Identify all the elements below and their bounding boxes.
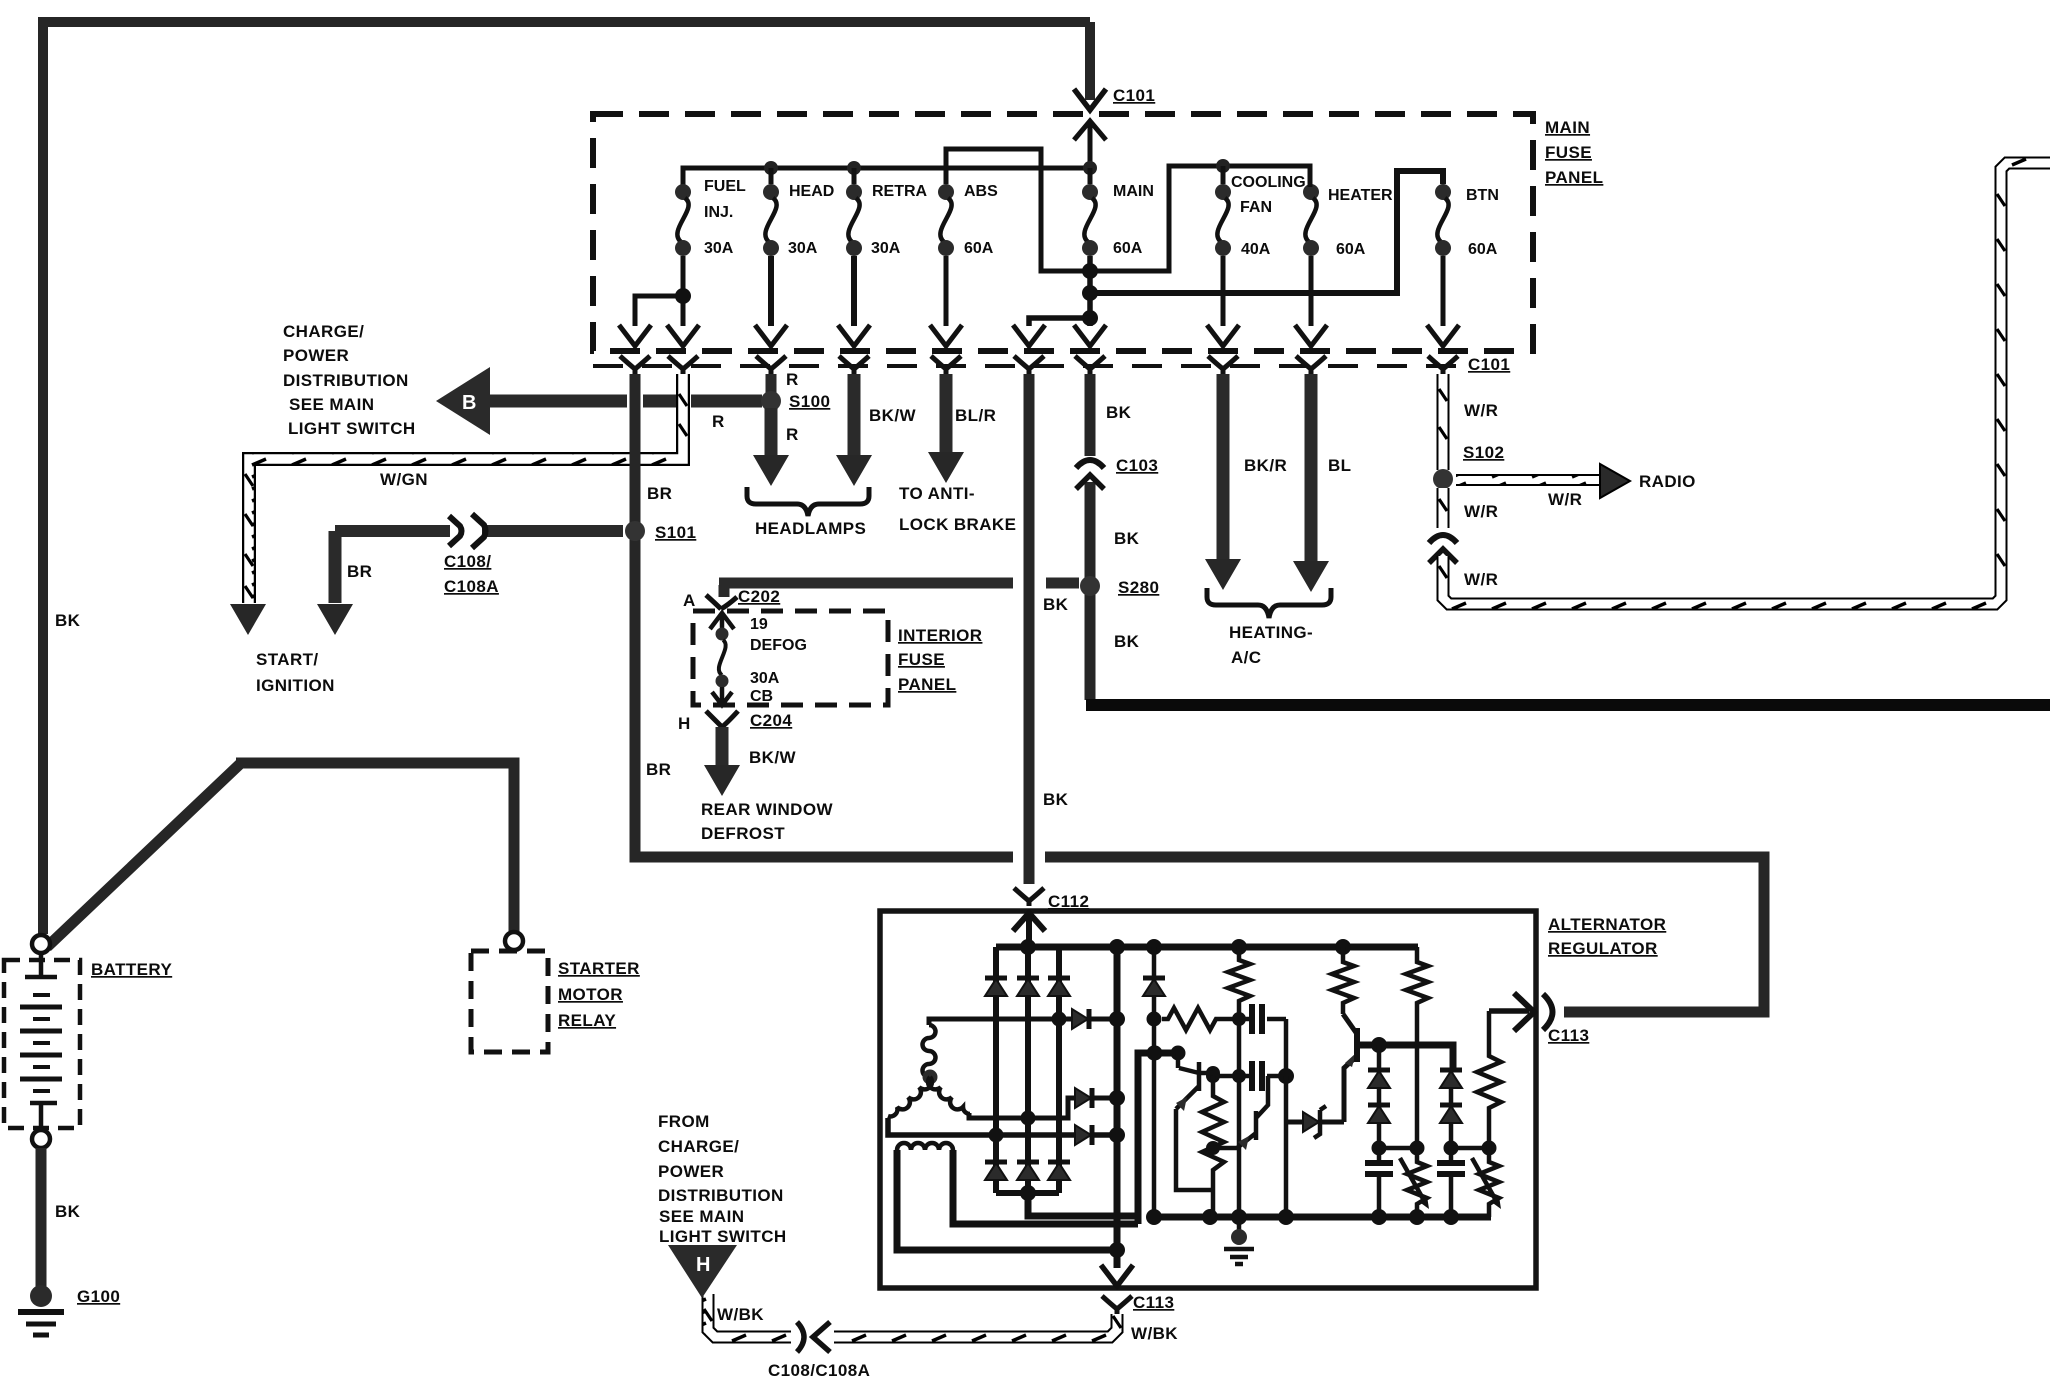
svg-text:CB: CB <box>750 688 773 705</box>
svg-text:30A: 30A <box>704 240 734 257</box>
node trio 3 out <box>1109 1127 1125 1143</box>
wire ABS feed loop from MAIN output <box>946 149 1090 271</box>
wire BL/R anti-lock feed with arrow <box>940 374 953 453</box>
ground (regulator) <box>1231 1229 1247 1245</box>
wire W/R below S102 (outlined) <box>1437 488 1450 528</box>
arrow to start/ignition <box>230 604 266 635</box>
node cluster B <box>1444 1141 1459 1156</box>
wire HEAD fuse stub <box>769 168 774 184</box>
connector C202 <box>706 595 737 609</box>
svg-text:ABS: ABS <box>964 183 998 200</box>
wire 1286 column down to bus <box>1284 1076 1289 1217</box>
connector C inline on W/R <box>1429 535 1457 543</box>
svg-text:COOLING: COOLING <box>1231 174 1306 191</box>
diode trio 3 <box>1075 1125 1092 1145</box>
node thermistor B <box>1482 1141 1497 1156</box>
node thermistor A <box>1410 1141 1425 1156</box>
connector C101 boundary dashed line <box>593 364 1458 368</box>
wire C113 right output <box>1489 1008 1529 1014</box>
ground G100 <box>30 1285 52 1307</box>
capacitor C1 <box>1239 1017 1286 1022</box>
wire RETRA output <box>851 256 857 326</box>
brace heating A/C <box>1207 588 1331 618</box>
svg-text:LIGHT SWITCH: LIGHT SWITCH <box>659 1227 787 1246</box>
wire BK from MAIN pin down to bus bar <box>1085 374 1096 700</box>
fuse HEATER 60A <box>1303 184 1319 256</box>
svg-text:R: R <box>786 370 799 389</box>
wire BL heating feed with arrow <box>1305 374 1318 562</box>
svg-text:CHARGE/: CHARGE/ <box>658 1137 739 1156</box>
node phase A / bridge <box>1052 1012 1067 1027</box>
node phase B / bridge <box>1021 1111 1036 1126</box>
wire BR branch down with arrow <box>329 531 342 603</box>
wire MAIN fuse output column <box>1087 256 1093 326</box>
node column A / R1 <box>1147 1012 1162 1027</box>
connector C113 bottom (arrow into edge) <box>1101 1265 1133 1286</box>
wire phase B <box>969 1098 1117 1118</box>
diode column A <box>1143 978 1165 996</box>
diode trio 2 <box>1075 1088 1092 1108</box>
node bus junction MAIN/C101 <box>1083 161 1097 175</box>
resistor R1 (horizontal) <box>1162 1008 1239 1030</box>
node driver rail / cluster A <box>1371 1037 1387 1053</box>
fuse RETRA 30A <box>846 184 862 256</box>
connector C101 mating halves below panel <box>620 356 650 374</box>
svg-text:C108/C108A: C108/C108A <box>768 1361 870 1376</box>
svg-text:REAR WINDOW: REAR WINDOW <box>701 800 833 819</box>
interior fuse panel dashed box <box>693 611 888 705</box>
svg-text:RADIO: RADIO <box>1639 472 1696 491</box>
svg-text:60A: 60A <box>1113 240 1143 257</box>
svg-text:BL/R: BL/R <box>955 406 996 425</box>
connector C108/C108A inline (bottom) <box>797 1322 804 1352</box>
node rail left <box>1206 1069 1220 1083</box>
arrow radio <box>1600 464 1630 498</box>
cluster A diode pair <box>1377 1045 1382 1148</box>
svg-text:DISTRIBUTION: DISTRIBUTION <box>283 371 409 390</box>
wire BK/W rear defrost with arrow <box>716 727 729 768</box>
connector C113 bottom mating half <box>1102 1296 1132 1314</box>
connector C103 <box>1076 460 1104 468</box>
regulator bottom bus <box>1154 1214 1491 1221</box>
wire alternator output vertical to C113 <box>1114 947 1121 1268</box>
node Q1 collector / R4 <box>1206 1066 1220 1080</box>
wire phase C <box>888 1118 1117 1135</box>
node rail right <box>1278 1068 1294 1084</box>
node bridge bottom <box>1020 1185 1036 1201</box>
svg-text:RETRA: RETRA <box>872 183 928 200</box>
svg-text:C103: C103 <box>1116 456 1158 475</box>
svg-text:STARTER: STARTER <box>558 959 640 978</box>
svg-text:60A: 60A <box>1336 241 1366 258</box>
wire COOLING output <box>1221 256 1226 326</box>
svg-text:POWER: POWER <box>283 346 349 365</box>
node bus junction HEAD <box>764 161 778 175</box>
svg-text:HEADLAMPS: HEADLAMPS <box>755 519 866 538</box>
connector C112 mating half <box>1014 888 1044 906</box>
splice S100 <box>761 391 781 411</box>
resistor R tall to C113 <box>1477 1011 1501 1148</box>
svg-text:R: R <box>712 412 725 431</box>
fuse ABS 60A <box>938 184 954 256</box>
svg-text:BK: BK <box>1043 595 1069 614</box>
svg-text:R: R <box>786 425 799 444</box>
rectifier bridge verticals <box>996 947 1059 1193</box>
node bus/column A <box>1146 939 1162 955</box>
stator left winding <box>888 1077 932 1116</box>
svg-text:BR: BR <box>646 760 671 779</box>
svg-text:BK: BK <box>55 1202 81 1221</box>
wire BK/R heating feed with arrow <box>1217 374 1230 560</box>
wire ABS output <box>944 256 949 326</box>
svg-text:BK/W: BK/W <box>869 406 916 425</box>
node bus/output vertical <box>1109 939 1125 955</box>
svg-text:PANEL: PANEL <box>1545 168 1603 187</box>
svg-text:CHARGE/: CHARGE/ <box>283 322 364 341</box>
thermistor B <box>1479 1148 1499 1217</box>
svg-text:DISTRIBUTION: DISTRIBUTION <box>658 1186 784 1205</box>
node R4 / Q2 emitter <box>1206 1141 1220 1155</box>
svg-text:C112: C112 <box>1048 892 1089 911</box>
link A <box>1379 1146 1417 1151</box>
svg-text:19: 19 <box>750 616 768 633</box>
node bus/colA <box>1146 1209 1162 1225</box>
battery negative terminal <box>32 1130 50 1148</box>
wire Q1 collector to 1076 rail <box>1199 1071 1213 1076</box>
alternator regulator box <box>880 911 1536 1288</box>
node bus/R4 <box>1202 1209 1218 1225</box>
svg-text:C101: C101 <box>1468 355 1510 374</box>
svg-text:C108/: C108/ <box>444 552 491 571</box>
wire bridge bottom to regulator <box>1028 1053 1178 1224</box>
arrow B to main light switch <box>436 367 490 435</box>
svg-text:30A: 30A <box>871 240 901 257</box>
node bus/capA <box>1371 1209 1387 1225</box>
resistor R2 <box>1332 947 1354 1014</box>
wire BTN feed loop from MAIN output <box>1090 171 1443 293</box>
wire BR long run to alternator C113 (right side) <box>635 840 1764 1012</box>
svg-text:A: A <box>683 591 696 610</box>
wire BK battery to ground <box>36 1148 47 1287</box>
connector C204 <box>706 711 738 727</box>
svg-text:PANEL: PANEL <box>898 675 956 694</box>
svg-text:60A: 60A <box>964 240 994 257</box>
starter motor relay dashed box <box>471 951 548 1052</box>
diode bridge lower 3 <box>1048 1162 1070 1180</box>
wire FUEL INJ output with branch <box>635 256 683 326</box>
connector C101 top half <box>1074 89 1106 110</box>
wire zener link <box>1286 1120 1344 1125</box>
svg-text:W/R: W/R <box>1548 490 1582 509</box>
node MAIN/BTN junction <box>1082 285 1098 301</box>
wire column B with resistor R5 <box>1228 947 1250 1237</box>
node column A / link <box>1147 1046 1162 1061</box>
wire B+ top bus <box>996 944 1418 951</box>
node bus/thermA <box>1409 1209 1425 1225</box>
node cluster A <box>1372 1141 1387 1156</box>
svg-text:BK: BK <box>1114 529 1140 548</box>
stator right winding <box>928 1077 970 1114</box>
splice S101 <box>625 521 645 541</box>
thermistor A <box>1407 1148 1427 1217</box>
cluster B diode pair <box>1449 1071 1454 1148</box>
svg-text:RELAY: RELAY <box>558 1011 616 1030</box>
svg-text:40A: 40A <box>1241 241 1271 258</box>
wire battery positive feed: left vertical, top horizontal, down to C101 <box>38 22 1090 934</box>
wire column A (sense) <box>1152 947 1157 1217</box>
svg-text:SEE MAIN: SEE MAIN <box>659 1207 744 1226</box>
wire BK long feed from aux pin to C112 <box>1024 374 1035 884</box>
stator node <box>923 1070 938 1085</box>
connector C112 inner half (arrow up) <box>1013 913 1045 947</box>
battery positive terminal <box>32 935 50 953</box>
field winding (rotor) <box>897 1143 953 1150</box>
wire MAIN fuse stub <box>1088 168 1093 184</box>
svg-text:BK: BK <box>55 611 81 630</box>
node trio 2 out <box>1109 1090 1125 1106</box>
wire HEAD output <box>768 256 774 326</box>
fuse DEFOG 30A CB <box>710 613 734 629</box>
node FUEL INJ branch junction <box>675 288 691 304</box>
svg-text:TO ANTI-: TO ANTI- <box>899 484 975 503</box>
svg-text:60A: 60A <box>1468 241 1498 258</box>
node column B / 1076 rail <box>1232 1069 1246 1083</box>
battery dashed box <box>4 960 80 1128</box>
wire battery to starter motor relay <box>47 763 514 947</box>
wire BK/W headlamp feed with arrow <box>848 374 861 457</box>
svg-text:W/BK: W/BK <box>717 1305 764 1324</box>
diode trio 1 <box>1072 1009 1089 1029</box>
node on 1053 link <box>1148 1046 1163 1061</box>
svg-text:POWER: POWER <box>658 1162 724 1181</box>
wire W/R from BTN pin (outlined) <box>1437 374 1450 470</box>
svg-text:S280: S280 <box>1118 578 1159 597</box>
svg-text:FROM: FROM <box>658 1112 710 1131</box>
connector C101 lower half (arrow up inside panel) <box>1074 121 1106 168</box>
wire BTN output <box>1441 256 1446 326</box>
svg-text:C204: C204 <box>750 711 792 730</box>
node R1/column B <box>1232 1012 1246 1026</box>
svg-text:FAN: FAN <box>1240 199 1272 216</box>
zener diode <box>1303 1112 1319 1132</box>
wire HEAD output below connector <box>766 374 777 394</box>
svg-text:START/: START/ <box>256 650 319 669</box>
svg-text:HEATER: HEATER <box>1328 187 1393 204</box>
capacitor B <box>1449 1148 1454 1217</box>
svg-text:S100: S100 <box>789 392 830 411</box>
node COOLING bus junction <box>1216 159 1230 173</box>
resistor R3 column <box>1406 947 1428 1148</box>
svg-text:A/C: A/C <box>1231 648 1261 667</box>
diode bridge upper 2 <box>1017 978 1039 996</box>
diode bridge lower 2 <box>1017 1162 1039 1180</box>
arrow H from charge/power distribution <box>668 1245 737 1298</box>
starter motor relay terminal <box>505 932 523 950</box>
transistor Q2 <box>1213 1076 1268 1148</box>
svg-text:C202: C202 <box>738 587 780 606</box>
svg-text:S101: S101 <box>655 523 696 542</box>
node Q1 collector tap <box>1171 1046 1186 1061</box>
node ground bus <box>1231 1209 1247 1225</box>
diode bridge lower 1 <box>985 1162 1007 1180</box>
stator top winding <box>923 1025 936 1077</box>
svg-text:BL: BL <box>1328 456 1351 475</box>
svg-text:SEE MAIN: SEE MAIN <box>289 395 374 414</box>
svg-text:30A: 30A <box>788 240 818 257</box>
wire BK from C202 to S280 <box>719 583 1079 597</box>
splice S280 <box>1080 576 1100 596</box>
wire BR to C108/C108A (shaft) <box>335 525 623 537</box>
link B <box>1451 1146 1489 1151</box>
svg-text:BR: BR <box>647 484 672 503</box>
battery cells <box>25 953 57 977</box>
wire COOLING fuse stub <box>1221 166 1226 184</box>
diode bridge upper 1 <box>985 978 1007 996</box>
node trio 1 out <box>1109 1011 1125 1027</box>
node field return <box>1109 1242 1125 1258</box>
wire phase A <box>929 1019 1117 1025</box>
svg-text:H: H <box>678 714 691 733</box>
svg-text:DEFOG: DEFOG <box>750 637 807 654</box>
fuse COOLING FAN 40A <box>1215 184 1231 256</box>
wire RETRA fuse stub <box>852 168 857 184</box>
svg-text:HEAD: HEAD <box>789 183 834 200</box>
svg-text:INJ.: INJ. <box>704 204 733 221</box>
svg-text:BR: BR <box>347 562 372 581</box>
wire driver rail (heavy) <box>1357 1045 1453 1071</box>
wire BR from branch pin down through S101 <box>630 374 641 852</box>
node phase C / bridge <box>989 1128 1004 1143</box>
svg-text:MOTOR: MOTOR <box>558 985 623 1004</box>
svg-text:C113: C113 <box>1133 1293 1174 1312</box>
fuse BTN 60A <box>1435 184 1451 256</box>
wire COOLING/HEATER feed loop from MAIN output <box>1090 166 1310 271</box>
svg-text:30A: 30A <box>750 670 780 687</box>
svg-text:W/BK: W/BK <box>1131 1324 1178 1343</box>
svg-text:BK: BK <box>1106 403 1132 422</box>
wire W/GN run to start/ignition (outlined) <box>249 374 683 603</box>
wire bridge bottom bus <box>996 1190 1059 1196</box>
node bus junction RETRA <box>847 161 861 175</box>
bus bar (heavy) <box>1086 699 2050 711</box>
resistor R4 <box>1202 1076 1224 1217</box>
svg-text:BK: BK <box>1114 632 1140 651</box>
svg-text:BK/W: BK/W <box>749 748 796 767</box>
connector C113 right (arrow) <box>1514 993 1534 1031</box>
fuse FUEL INJ 30A <box>675 184 691 256</box>
svg-text:LOCK BRAKE: LOCK BRAKE <box>899 515 1016 534</box>
node bus/C112 <box>1020 939 1036 955</box>
svg-text:FUEL: FUEL <box>704 178 746 195</box>
node MAIN/aux junction <box>1082 310 1098 326</box>
wire fuse supply bus <box>683 168 1090 185</box>
svg-text:W/R: W/R <box>1464 401 1498 420</box>
node MAIN/ABS junction <box>1082 263 1098 279</box>
svg-text:HEATING-: HEATING- <box>1229 623 1313 642</box>
svg-text:H: H <box>696 1254 710 1276</box>
capacitor C2 <box>1252 1061 1262 1091</box>
brace headlamps <box>747 487 869 516</box>
svg-text:INTERIOR: INTERIOR <box>898 626 982 645</box>
svg-text:BATTERY: BATTERY <box>91 960 172 979</box>
svg-text:ALTERNATOR: ALTERNATOR <box>1548 915 1666 934</box>
wire R headlamp feed with arrow <box>765 408 778 457</box>
tick marks on vertical outlined wires <box>245 194 2005 1328</box>
svg-text:S102: S102 <box>1463 443 1504 462</box>
svg-text:LIGHT SWITCH: LIGHT SWITCH <box>288 419 416 438</box>
svg-text:FUSE: FUSE <box>898 650 945 669</box>
svg-text:C108A: C108A <box>444 577 499 596</box>
wire W/R to radio (outlined) <box>1456 474 1601 486</box>
node bus/1286 <box>1278 1209 1294 1225</box>
capacitor A <box>1377 1148 1382 1217</box>
svg-text:BK/R: BK/R <box>1244 456 1287 475</box>
transistor Q3 <box>1344 1056 1357 1122</box>
fuse HEAD 30A <box>763 184 779 256</box>
svg-text:W/R: W/R <box>1464 502 1498 521</box>
wire W/BK from C113 to C108/C108A (outlined) <box>708 1294 1117 1337</box>
svg-text:BK: BK <box>1043 790 1069 809</box>
svg-text:C113: C113 <box>1548 1026 1589 1045</box>
svg-text:REGULATOR: REGULATOR <box>1548 939 1658 958</box>
svg-text:IGNITION: IGNITION <box>256 676 335 695</box>
node bus/R2 <box>1335 939 1351 955</box>
fuse MAIN 60A <box>1082 184 1098 256</box>
svg-text:MAIN: MAIN <box>1545 118 1590 137</box>
wire W/R long loop to right edge (outlined) <box>1443 163 2050 604</box>
wire R from fuse HEAD to arrow B (shaft) <box>488 395 762 408</box>
splice S102 <box>1433 469 1453 489</box>
node bus/capB <box>1443 1209 1459 1225</box>
node bus/column B <box>1231 939 1247 955</box>
svg-text:W/GN: W/GN <box>380 470 428 489</box>
wire aux branch to 5th connector <box>1029 318 1090 326</box>
svg-text:MAIN: MAIN <box>1113 183 1154 200</box>
svg-text:DEFROST: DEFROST <box>701 824 785 843</box>
transistor Q1 <box>1176 1053 1213 1190</box>
wire HEATER output <box>1309 256 1314 326</box>
svg-text:W/R: W/R <box>1464 570 1498 589</box>
wire field right leg <box>953 1150 1138 1224</box>
diode bridge upper 3 <box>1048 978 1070 996</box>
rail 1076 <box>1213 1074 1286 1079</box>
wire field left leg to return <box>897 1150 1117 1250</box>
main fuse panel dashed box <box>593 114 1533 351</box>
connector C108/C108A inline <box>449 516 462 546</box>
connector C101 bottom row: arrows into connector <box>619 325 1459 346</box>
svg-text:C101: C101 <box>1113 86 1155 105</box>
svg-text:B: B <box>462 392 476 414</box>
svg-text:BTN: BTN <box>1466 187 1499 204</box>
svg-text:FUSE: FUSE <box>1545 143 1592 162</box>
wire C1 to 1076 rail <box>1284 1019 1289 1076</box>
svg-text:G100: G100 <box>77 1287 120 1306</box>
